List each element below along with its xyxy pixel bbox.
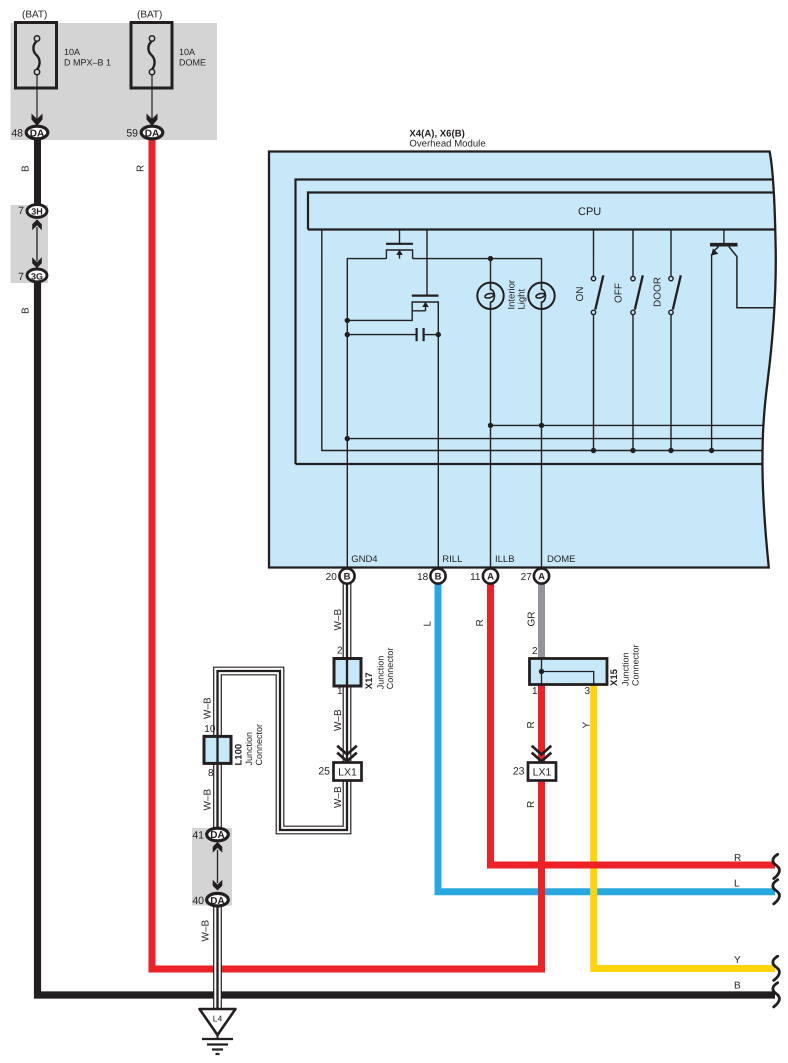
svg-text:GR: GR <box>527 612 538 627</box>
svg-text:2: 2 <box>337 646 343 657</box>
splice 25 LX1 <box>318 763 361 781</box>
wire W-B GND4 pin 20 staircase to 41 DA <box>218 577 348 830</box>
module internals <box>296 180 779 568</box>
svg-text:W–B: W–B <box>333 786 344 808</box>
svg-text:3G: 3G <box>31 272 43 282</box>
svg-text:R: R <box>475 619 486 626</box>
svg-text:DOME: DOME <box>547 554 576 565</box>
transistor Q1 base lead from CPU <box>723 231 725 245</box>
junction connector X15 <box>530 644 641 697</box>
svg-text:R: R <box>526 721 537 728</box>
svg-text:11: 11 <box>470 572 481 583</box>
pin 20 B <box>326 568 355 583</box>
svg-text:8: 8 <box>208 768 214 779</box>
junction connector X17 <box>334 646 395 698</box>
svg-text:Y: Y <box>734 955 741 966</box>
connector 59 DA <box>126 126 162 139</box>
gray connector box 3H/3G <box>11 205 49 283</box>
wire B (black) 3G down and across bottom <box>38 282 776 995</box>
chevron arrows into 23 LX1 <box>532 746 552 762</box>
chevron arrows into 25 LX1 <box>337 746 357 762</box>
svg-text:Junction: Junction <box>621 652 631 686</box>
wire fuse F2 to connector <box>151 75 153 119</box>
svg-text:40: 40 <box>192 895 204 907</box>
svg-text:B: B <box>21 165 32 172</box>
svg-text:RILL: RILL <box>442 554 462 565</box>
svg-text:GND4: GND4 <box>351 554 377 565</box>
arrows between 3H and 3G <box>32 219 42 268</box>
arrow into 48 DA <box>32 114 43 127</box>
svg-text:7: 7 <box>18 271 24 283</box>
MOSFET Q3 (lower) gate lead <box>426 231 428 296</box>
gray connector box 41/40 DA <box>192 828 232 906</box>
fuse F2 10A DOME <box>131 23 172 89</box>
wire L (blue) pin 18 <box>438 577 775 892</box>
switch DOOR <box>669 231 681 451</box>
svg-text:OFF: OFF <box>614 283 625 303</box>
svg-text:27: 27 <box>521 572 533 583</box>
CPU box <box>308 193 778 230</box>
svg-text:B: B <box>21 307 32 314</box>
wire W-B 40 DA to ground L4 <box>213 906 222 1009</box>
capacitor C1 <box>347 328 438 341</box>
svg-text:23: 23 <box>513 766 525 778</box>
inner rectangle <box>296 180 779 465</box>
svg-text:48: 48 <box>11 128 23 140</box>
svg-text:DA: DA <box>210 896 224 907</box>
svg-text:Overhead Module: Overhead Module <box>409 138 485 149</box>
svg-text:W–B: W–B <box>203 789 214 811</box>
svg-text:Y: Y <box>582 722 593 729</box>
svg-text:DA: DA <box>145 128 159 139</box>
svg-text:D MPX–B 1: D MPX–B 1 <box>64 58 111 68</box>
svg-text:18: 18 <box>417 572 429 583</box>
transistor Q1 <box>710 245 778 308</box>
svg-text:Connector: Connector <box>254 724 264 766</box>
wire: Q2 drain to lamps <box>413 259 542 283</box>
lamp 1 interior light <box>477 283 503 309</box>
svg-text:2: 2 <box>532 646 538 657</box>
svg-text:L100: L100 <box>234 744 245 766</box>
svg-text:10: 10 <box>204 724 216 735</box>
svg-text:(BAT): (BAT) <box>22 10 47 21</box>
junction dots <box>345 256 715 453</box>
svg-text:3H: 3H <box>31 206 43 216</box>
connector 7 3G <box>18 269 47 283</box>
MOSFET Q3 <box>347 296 438 321</box>
svg-text:3: 3 <box>584 686 590 697</box>
connector 41 DA <box>192 828 228 841</box>
svg-text:W–B: W–B <box>333 609 344 631</box>
wire: lamp1 down to ILLB pin <box>490 309 492 568</box>
arrow into 59 DA <box>147 114 158 127</box>
connector 40 DA <box>192 893 228 907</box>
svg-text:DA: DA <box>30 128 44 139</box>
svg-text:10A: 10A <box>64 47 80 57</box>
svg-text:X15: X15 <box>609 668 620 686</box>
fuse F1 10A D MPX-B 1 <box>16 23 57 89</box>
svg-text:41: 41 <box>192 829 204 841</box>
svg-text:1: 1 <box>337 686 343 697</box>
svg-text:L: L <box>734 879 740 890</box>
module border stroke on top <box>269 152 776 568</box>
svg-text:B: B <box>344 572 351 583</box>
connector 48 DA <box>11 126 47 139</box>
ground symbol L4 <box>200 1009 236 1054</box>
wire: lamp2 down to DOME pin <box>541 309 543 568</box>
svg-text:DOME: DOME <box>179 58 206 68</box>
pin 11 A <box>470 568 498 583</box>
junction connector L100 <box>204 724 264 779</box>
wire R (red) X15 pin 1 to 59 DA <box>152 137 542 969</box>
break squiggle R <box>773 854 780 878</box>
switch OFF <box>631 231 643 451</box>
break squiggle L <box>773 880 780 904</box>
svg-text:Light: Light <box>516 289 527 310</box>
wire B (black) 48 DA to 3H <box>34 137 41 204</box>
svg-text:ON: ON <box>575 287 586 302</box>
switch ON <box>591 231 603 451</box>
MOSFET Q2 (upper) <box>386 231 413 259</box>
wire: lamp1 drop from Q2 wire <box>490 259 492 283</box>
svg-text:20: 20 <box>326 572 338 583</box>
svg-text:59: 59 <box>126 128 138 140</box>
svg-text:DOOR: DOOR <box>653 277 664 307</box>
arrows between 41 and 40 <box>213 842 223 891</box>
svg-text:R: R <box>526 801 537 808</box>
svg-text:CPU: CPU <box>578 206 601 218</box>
svg-text:LX1: LX1 <box>338 767 357 779</box>
bus line 2 from GND4 <box>347 438 778 440</box>
gray relay panel (top) <box>11 23 218 140</box>
svg-text:L: L <box>423 621 434 627</box>
bus line 1 from lamp drop <box>491 424 779 426</box>
lamp 2 interior light <box>528 283 554 309</box>
svg-text:W–B: W–B <box>203 697 214 719</box>
wire: Q1 emitter vertical <box>711 254 713 451</box>
svg-text:1: 1 <box>532 686 538 697</box>
wire Y (yellow) X15 pin 3 <box>594 682 775 969</box>
wire R (red) pin 11 ILLB <box>491 577 776 865</box>
connector 7 3H <box>18 205 47 218</box>
splice 23 LX1 <box>513 763 556 781</box>
svg-text:L4: L4 <box>213 1014 223 1024</box>
svg-text:B: B <box>734 981 741 992</box>
svg-text:X17: X17 <box>364 672 375 689</box>
svg-text:W–B: W–B <box>333 709 344 731</box>
pin 27 A <box>521 568 549 583</box>
svg-text:DA: DA <box>210 830 224 841</box>
svg-text:(BAT): (BAT) <box>137 10 162 21</box>
svg-text:Junction: Junction <box>244 732 254 766</box>
svg-text:R: R <box>136 165 147 172</box>
svg-text:Junction: Junction <box>375 656 385 690</box>
svg-text:W–B: W–B <box>201 920 212 942</box>
svg-text:25: 25 <box>318 766 330 778</box>
wire GR (gray) pin 27 DOME <box>538 577 545 660</box>
svg-text:Connector: Connector <box>630 644 640 686</box>
svg-text:B: B <box>435 572 442 583</box>
wire: Q3 drain down to RILL pin <box>437 302 439 568</box>
wire: GND4 vertical <box>347 259 386 568</box>
wire: CPU-left vertical to bus line 3 <box>322 231 778 451</box>
svg-text:A: A <box>487 572 494 583</box>
pin 18 B <box>417 568 446 583</box>
svg-text:ILLB: ILLB <box>495 554 515 565</box>
svg-text:10A: 10A <box>179 47 195 57</box>
svg-text:A: A <box>538 572 545 583</box>
svg-text:R: R <box>734 853 741 864</box>
break squiggle B <box>773 983 780 1007</box>
svg-text:LX1: LX1 <box>533 767 552 779</box>
svg-text:7: 7 <box>18 205 24 217</box>
wire fuse F1 to connector <box>36 75 38 119</box>
svg-text:Connector: Connector <box>385 648 395 690</box>
break squiggle Y <box>773 956 780 980</box>
